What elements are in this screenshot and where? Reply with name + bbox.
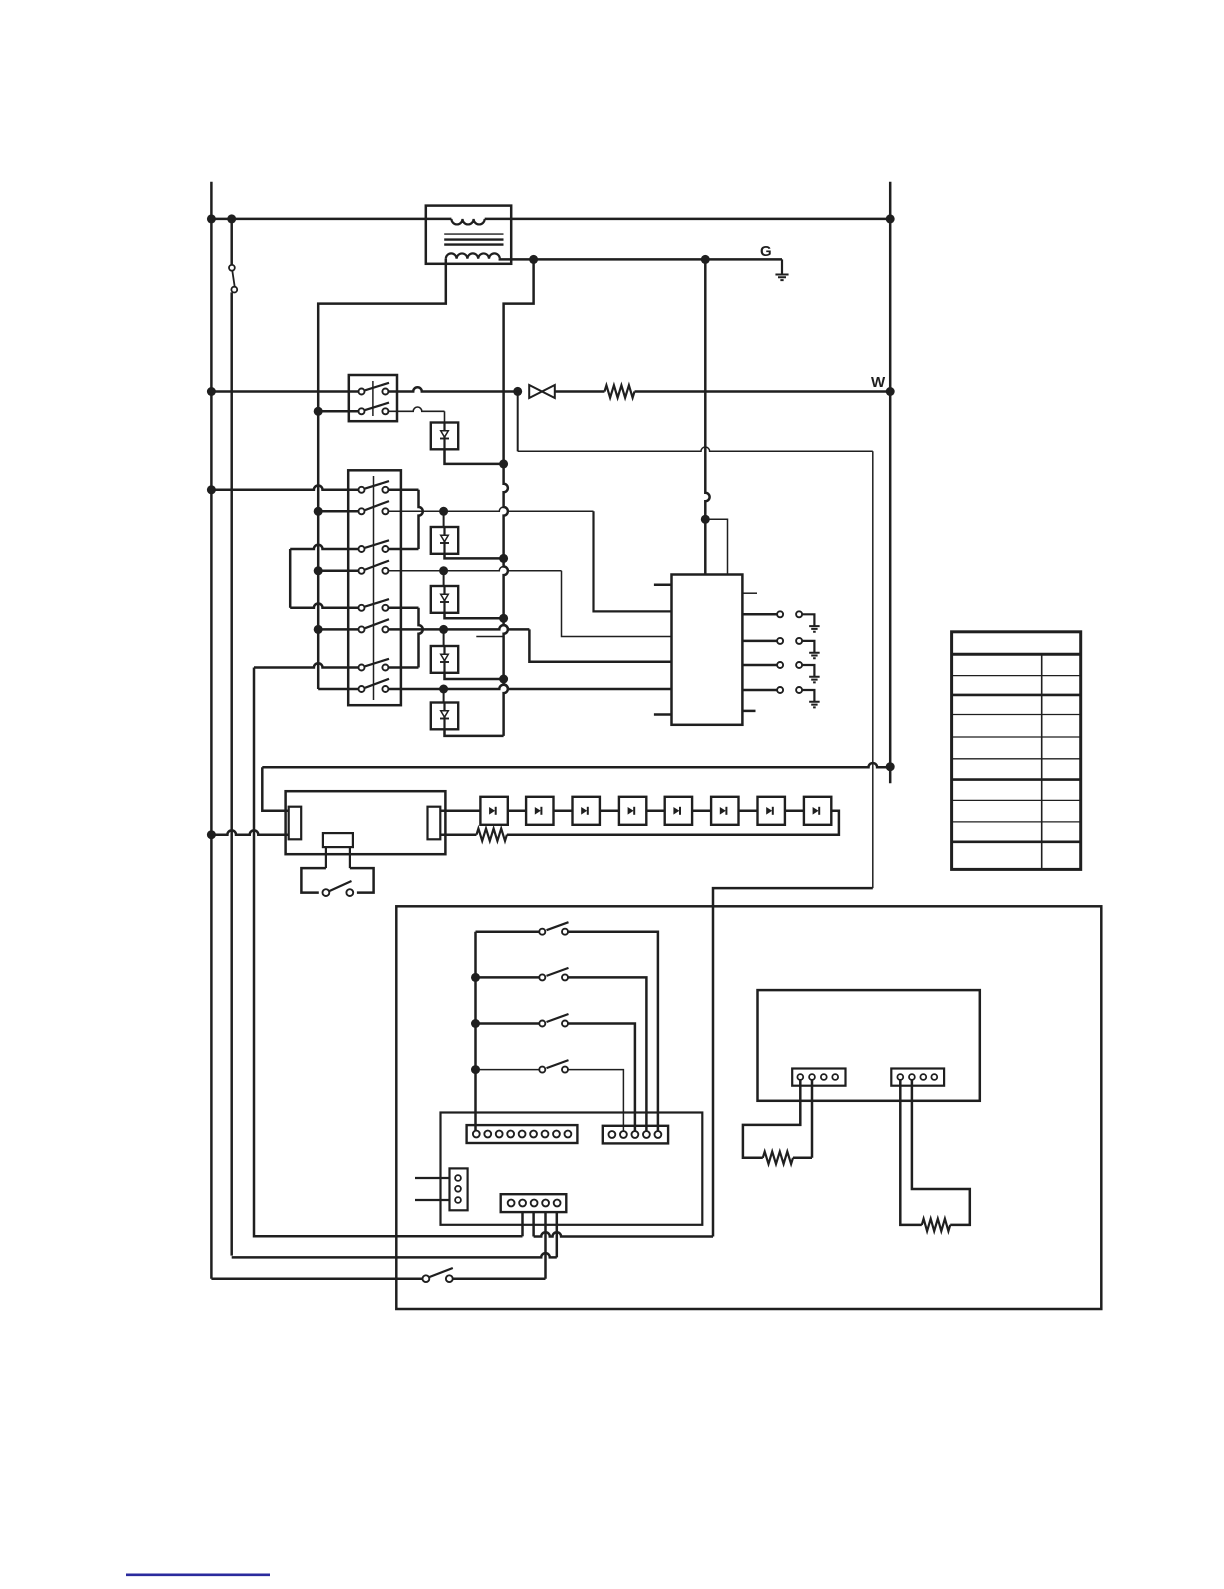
wire: chain link 2 <box>554 810 573 813</box>
pin: U1 right pin 2 with plug and ground <box>742 640 776 643</box>
wire: K1 coil feed y=835 <box>211 830 288 834</box>
table: legend outer box <box>952 632 1081 870</box>
wire: chain link 4 <box>646 810 664 813</box>
table: thin row line y=675.6 <box>952 675 1081 677</box>
connector J4: 3-pin block <box>450 1168 468 1210</box>
connector J3: 5-pin strip <box>501 1194 567 1212</box>
relay K1: left pin bar <box>289 807 302 840</box>
wire: chain link 6 <box>739 810 758 813</box>
diode D9: bowtie symbol <box>529 385 542 398</box>
switch S7: bank switch row 3 <box>476 1022 540 1025</box>
switch S3: pole 6 <box>359 626 365 632</box>
wire: cross-feed thin line y=451 to right vbus <box>518 447 873 451</box>
wire: bracket left edge <box>289 549 292 608</box>
node: dot bank bus row 4 <box>471 1065 480 1074</box>
diode D14: boxed diode in chain <box>665 797 692 825</box>
wire: row5 right to join <box>389 607 419 610</box>
diode D0: boxed diode <box>431 423 458 450</box>
wire: right bus x=890 <box>889 182 892 784</box>
node: dot L2/V1 <box>207 387 216 396</box>
wire: rail into S2 pole B from V5 <box>318 410 358 413</box>
wire: row3 right to join <box>389 548 419 551</box>
wire: S2 pole A lead-in <box>349 390 358 393</box>
wire: vertical bus V2 lower segment <box>230 292 233 1255</box>
node: junction dot rail1/right bus <box>886 214 895 223</box>
pin: U1 right pin 1 with plug and ground <box>742 613 776 616</box>
table: column divider <box>1041 654 1043 869</box>
diode D1: boxed diode <box>443 511 445 527</box>
node: dot row8/D4 <box>439 685 448 694</box>
wire: row1 from V1 to corner <box>211 486 358 490</box>
diode D4: boxed diode <box>443 689 445 703</box>
switch S3: contact block box <box>348 470 401 705</box>
wire: row5-row7 join vertical <box>419 608 423 668</box>
ground: chassis ground G <box>781 259 783 274</box>
wire: J4 stub 2 <box>415 1199 450 1201</box>
wire: bowtie to resistor <box>555 390 605 393</box>
resistor R4 <box>922 1219 950 1231</box>
node: dot D2/V6 <box>499 614 508 623</box>
wire: D1 to V6 <box>445 554 504 559</box>
transformer T1: primary coil <box>451 219 484 225</box>
node: dot L2/right bus <box>886 387 895 396</box>
wire: V7 from dot down to cross-feed <box>517 391 519 451</box>
node: dot D0/V6 <box>499 459 508 468</box>
wire: D4 return to V6 bottom <box>445 729 504 736</box>
diode D2: boxed diode <box>443 571 445 586</box>
node: dot D1/V6 <box>499 554 508 563</box>
wire: branch to thin top pin <box>705 519 727 574</box>
table: thick row line y=694.9 <box>952 694 1081 697</box>
node: dot D3/V6 <box>499 675 508 684</box>
pin: U1 right stub bottom <box>742 710 755 713</box>
wire: row4 elbow to IC pin2 <box>562 571 672 637</box>
node: dot V1/coil feed <box>207 830 216 839</box>
wire: thin right vertical x=873 <box>872 451 874 888</box>
switch S1: disconnect on V2 <box>229 265 235 271</box>
pin: U1 right pin 4 with plug and ground <box>742 689 776 692</box>
wire: J3 pin5 down <box>556 1212 559 1257</box>
switch S4: contacts <box>323 889 330 896</box>
wire: chain link 7 <box>785 810 804 813</box>
connector J1: 9-pin strip <box>467 1125 578 1143</box>
IC U1: connector block <box>672 575 743 725</box>
table: thin row line y=714.5 <box>952 714 1081 716</box>
wire: R3 to J5 pin2 <box>793 1080 812 1158</box>
switch S3: pole 7 <box>359 665 365 671</box>
wire: pole B out to diode box D0 <box>389 407 445 411</box>
switch S3: pole 8 <box>359 686 365 692</box>
wire: R2 to K1 right pin <box>440 833 476 836</box>
wire: V9 down to U1 top <box>705 259 709 574</box>
switch S9: door switch <box>423 1275 430 1282</box>
resistor R1 <box>605 385 635 397</box>
switch S8: bank switch row 4 <box>476 1069 540 1071</box>
wire: feed elbow into K1 <box>262 767 288 811</box>
wire: R4 loop to J6 pin2 <box>912 1080 970 1225</box>
wire: chain link 3 <box>600 810 619 813</box>
node: dot row4/D2 <box>439 566 448 575</box>
node: dot row1/V1 <box>207 485 216 494</box>
wire: stub segment y=636.5 <box>476 636 503 638</box>
resistor R3 <box>763 1152 793 1164</box>
wire: resistor to right bus <box>635 390 891 393</box>
node: dot bank bus row 2 <box>471 973 480 982</box>
wire: J5 sensor loop <box>743 1080 800 1158</box>
table: header separator <box>952 653 1081 656</box>
wire: line A to V3 <box>254 668 523 1237</box>
wire: row1 right to L-join <box>389 489 419 492</box>
switch S3: pole 4 <box>359 568 365 574</box>
wire: secondary right exit <box>500 258 534 261</box>
wire: line D left part <box>211 1277 422 1280</box>
wire: line C to V2 <box>232 1253 557 1257</box>
pin: U1 right pin 3 with plug and ground <box>742 664 776 667</box>
node: dot before diode D9 <box>513 387 522 396</box>
connector J2: 5-pin strip <box>603 1126 668 1144</box>
diode D12: boxed diode in chain <box>573 797 600 825</box>
svg-text:G: G <box>760 243 772 260</box>
wire: elbow y=888 to V13 <box>713 888 873 1236</box>
pin: U1 left stub bottom <box>654 713 672 716</box>
wire: row4 thin from V5 <box>318 570 358 573</box>
wire: chain link 1 <box>508 810 526 813</box>
wire: V8 step down to V6 <box>504 259 534 307</box>
node: dot V5 poleB <box>314 407 323 416</box>
diode D10: boxed diode in chain <box>480 797 507 825</box>
pin: U1 right stub top <box>742 592 757 594</box>
wire: feedback line y=767 <box>262 763 890 767</box>
enclosure: bottom outer box <box>396 906 1101 1309</box>
switch S3: pole 2 <box>359 508 365 514</box>
switch S2: pole B <box>359 408 365 414</box>
table: thin row line y=758.8 <box>952 758 1081 760</box>
wire: row7 right to join <box>389 666 419 669</box>
wire: row6 elbow to IC pin3 <box>529 629 671 661</box>
table: thick row line y=841.8 <box>952 840 1081 843</box>
switch S2: pole A <box>359 389 365 395</box>
table: thin row line y=821.9 <box>952 821 1081 823</box>
switch S2: DPST box <box>349 375 397 421</box>
switch S4: K1 auxiliary switch enclosure <box>301 868 326 893</box>
wire: row7 from V3 corner <box>254 663 358 667</box>
wire: K1 armature leads <box>325 847 327 868</box>
wire: row1-row3 join vertical <box>419 490 423 549</box>
wire: line D right part <box>453 1277 546 1280</box>
node: dot V9/branch <box>701 515 710 524</box>
wire: row2 elbow to IC pin1 <box>594 511 672 611</box>
wire: chain end elbow <box>507 811 839 835</box>
switch S3: pole 5 <box>359 605 365 611</box>
wire: vertical V6 x=503.6 <box>504 307 508 736</box>
node: junction dot rail1/V2 <box>227 214 236 223</box>
wire: switch bank bus <box>474 932 477 1131</box>
wire: D0 to V6 <box>445 449 504 464</box>
transformer T1: secondary coil <box>446 253 500 258</box>
wire: rail from transformer secondary y=259 <box>534 258 782 261</box>
wire: top horizontal rail L1 y=219 with transformer primary gap <box>211 218 451 221</box>
wire: row2 from V5 to IC pin1 <box>318 510 358 513</box>
switch S3: pole 3 <box>359 546 365 552</box>
node: junction dot rail1/V1 <box>207 214 216 223</box>
wire: line B to V13 <box>534 1232 713 1236</box>
node: dot V8 top <box>529 255 538 264</box>
table: thin row line y=737.0 <box>952 736 1081 738</box>
diode D3: boxed diode <box>443 629 445 646</box>
wire: D2 to V6 <box>445 613 504 619</box>
wire: row3 bracket top <box>290 545 358 549</box>
diode D15: boxed diode in chain <box>711 797 738 825</box>
wire: rail L2 left segment <box>211 390 348 393</box>
node: dot bank bus row 3 <box>471 1019 480 1028</box>
transformer T1: core box <box>426 206 511 264</box>
wire: row5 bracket bottom <box>290 604 358 608</box>
node: dot row2/V5 <box>314 507 323 516</box>
relay K1: armature bar <box>323 833 353 847</box>
connector J5: 4-pin plug <box>792 1069 845 1086</box>
wire: K1 right pin top to diode chain <box>440 810 480 813</box>
wire: row8 to IC pin4 <box>318 688 358 691</box>
resistor R2 <box>477 829 507 841</box>
wire: row6 from V5 <box>318 628 358 631</box>
panel: display panel box <box>758 990 980 1101</box>
relay K1: outline box <box>286 791 446 854</box>
switch S6: bank switch row 2 <box>476 976 540 979</box>
relay K1: right pin bar <box>428 807 441 840</box>
svg-text:W: W <box>871 374 886 391</box>
node: dot V9 top <box>701 255 710 264</box>
wire: vertical bus V2 upper segment <box>230 219 233 265</box>
node: dot row2/D1 <box>439 507 448 516</box>
wire: D3 to V6 <box>445 673 504 679</box>
switch S3: pole 1 <box>359 487 365 493</box>
wire: chain link 5 <box>692 810 711 813</box>
pin: U1 left stub top <box>654 584 672 587</box>
wire: J6 sensor loop <box>900 1080 922 1225</box>
node: dot feedback/right bus <box>886 762 895 771</box>
node: dot row4/V5 <box>314 566 323 575</box>
board: control board box <box>441 1113 703 1225</box>
wire: J3 pin2 to line A <box>521 1212 524 1236</box>
diode D17: boxed diode in chain <box>804 797 831 825</box>
diode D13: boxed diode in chain <box>619 797 646 825</box>
wire: left vertical bus V1 x=211 <box>210 182 213 1279</box>
diode D16: boxed diode in chain <box>758 797 785 825</box>
table: thick row line y=779.6 <box>952 778 1081 781</box>
wire: J3 pin4 down <box>544 1212 547 1279</box>
wire: vertical V5 x=318 (to switch rows) <box>317 307 320 689</box>
connector J6: 4-pin plug <box>891 1069 944 1086</box>
switch S5: bank switch row 1 <box>476 930 540 933</box>
table: thin row line y=800.4 <box>952 799 1081 801</box>
transformer T1: core lines <box>444 233 503 235</box>
node: dot row6/D3 <box>439 625 448 634</box>
wire: pole A out with hop <box>389 387 518 391</box>
diode D11: boxed diode in chain <box>526 797 553 825</box>
wire: secondary left lead down <box>318 259 446 307</box>
node: dot row6/V5 <box>314 625 323 634</box>
wire: J3 pin3 to line B <box>532 1212 535 1236</box>
footer: blue rule <box>126 1574 270 1577</box>
wire: J4 stub 1 <box>415 1177 450 1179</box>
